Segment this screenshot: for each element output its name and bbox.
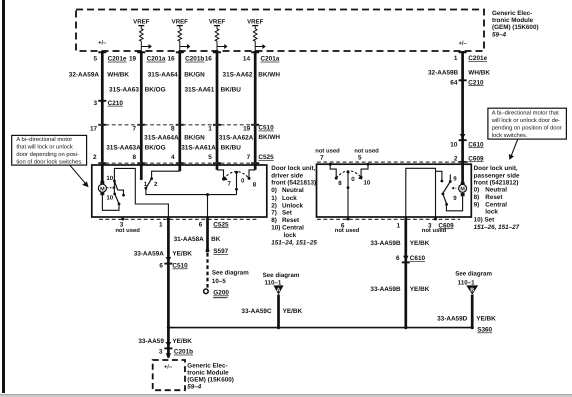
svg-text:S360: S360 — [477, 327, 492, 334]
svg-text:C525: C525 — [213, 221, 229, 228]
svg-text:14: 14 — [243, 56, 251, 63]
svg-text:C525: C525 — [258, 154, 274, 161]
svg-text:VREF: VREF — [172, 19, 189, 26]
svg-text:not used: not used — [115, 227, 140, 234]
svg-text:+/–: +/– — [458, 40, 467, 47]
svg-text:pending on position of door: pending on position of door — [492, 125, 562, 132]
svg-text:Door lock unit,: Door lock unit, — [271, 165, 315, 172]
svg-text:8: 8 — [338, 180, 342, 187]
svg-text:C210: C210 — [468, 79, 484, 86]
svg-text:7: 7 — [228, 181, 232, 188]
svg-text:31S-AA62A: 31S-AA62A — [219, 135, 254, 142]
svg-text:Lock: Lock — [282, 195, 297, 202]
svg-text:YE/BK: YE/BK — [476, 316, 496, 323]
svg-text:Set: Set — [282, 210, 293, 217]
svg-text:+/–: +/– — [164, 364, 172, 371]
svg-text:YE/BK: YE/BK — [172, 250, 192, 257]
svg-text:3: 3 — [94, 100, 98, 107]
svg-text:not used: not used — [335, 227, 360, 234]
svg-text:31S-AA61: 31S-AA61 — [184, 87, 214, 94]
svg-text:33-AA59C: 33-AA59C — [241, 308, 272, 315]
svg-text:door depending on posi-: door depending on posi- — [16, 151, 79, 158]
svg-text:0): 0) — [271, 187, 277, 194]
svg-text:BK/WH: BK/WH — [258, 72, 280, 79]
svg-text:10: 10 — [106, 194, 113, 201]
svg-text:Generic Elec-: Generic Elec- — [492, 10, 532, 17]
svg-text:8: 8 — [171, 126, 175, 133]
svg-text:passenger side: passenger side — [474, 172, 520, 179]
svg-text:33-AA59: 33-AA59 — [138, 338, 164, 345]
svg-text:BK: BK — [211, 236, 221, 243]
svg-text:10: 10 — [106, 175, 113, 182]
svg-text:G200: G200 — [213, 290, 229, 297]
svg-text:YE/BK: YE/BK — [283, 308, 303, 315]
svg-text:9: 9 — [453, 195, 457, 202]
svg-text:A: A — [277, 287, 281, 293]
svg-text:C609: C609 — [468, 155, 484, 162]
svg-text:BK/OG: BK/OG — [145, 144, 166, 151]
svg-text:BK/GN: BK/GN — [184, 135, 205, 142]
svg-text:Generic Elec-: Generic Elec- — [187, 362, 227, 369]
svg-text:1: 1 — [159, 221, 163, 228]
svg-text:31S-AA63: 31S-AA63 — [109, 87, 139, 94]
svg-text:8: 8 — [133, 154, 137, 161]
svg-text:9): 9) — [474, 201, 480, 208]
svg-text:10) Set: 10) Set — [474, 216, 496, 223]
svg-text:lock switches.: lock switches. — [492, 132, 528, 139]
svg-text:1: 1 — [454, 55, 458, 62]
svg-text:BK/GN: BK/GN — [184, 72, 205, 79]
svg-text:31S-AA64: 31S-AA64 — [148, 72, 178, 79]
svg-text:8): 8) — [474, 194, 480, 201]
svg-text:10) Central: 10) Central — [271, 225, 304, 232]
svg-text:See diagram: See diagram — [263, 272, 300, 279]
svg-text:BK/OG: BK/OG — [145, 87, 166, 94]
svg-text:Neutral: Neutral — [485, 187, 507, 194]
svg-text:31S-AA61A: 31S-AA61A — [181, 144, 216, 151]
svg-text:Reset: Reset — [485, 194, 503, 201]
svg-text:7): 7) — [271, 210, 277, 217]
svg-text:YE/BK: YE/BK — [172, 338, 192, 345]
svg-text:tion of door lock switches.: tion of door lock switches. — [16, 159, 83, 166]
svg-text:Unlock: Unlock — [282, 202, 303, 209]
svg-text:(GEM) (15K600): (GEM) (15K600) — [187, 376, 234, 383]
svg-text:5: 5 — [94, 56, 98, 63]
svg-text:S597: S597 — [213, 248, 228, 255]
svg-text:10: 10 — [364, 180, 371, 187]
svg-text:0: 0 — [351, 176, 355, 183]
svg-text:C201b: C201b — [185, 56, 204, 63]
svg-text:BK/BU: BK/BU — [221, 144, 242, 151]
svg-text:BK/WH: BK/WH — [258, 134, 280, 141]
svg-text:A bi–directional motor: A bi–directional motor — [16, 136, 72, 143]
svg-text:110–1: 110–1 — [458, 279, 475, 286]
svg-text:not used: not used — [354, 147, 379, 154]
svg-text:YE/BK: YE/BK — [410, 240, 430, 247]
svg-text:31S-AA62: 31S-AA62 — [223, 72, 253, 79]
svg-text:33-AA59B: 33-AA59B — [370, 286, 401, 293]
svg-text:1: 1 — [396, 222, 400, 229]
svg-text:will lock or unlock door de-: will lock or unlock door de- — [491, 117, 560, 124]
svg-text:10–5: 10–5 — [212, 278, 226, 285]
svg-text:31-AA58A: 31-AA58A — [174, 236, 205, 243]
svg-text:Central: Central — [485, 201, 507, 208]
svg-text:64: 64 — [450, 79, 458, 86]
svg-text:C610: C610 — [410, 255, 426, 262]
svg-text:5: 5 — [358, 155, 362, 162]
svg-text:M: M — [460, 187, 465, 193]
svg-text:33-AA59D: 33-AA59D — [437, 316, 468, 323]
svg-text:C510: C510 — [258, 125, 274, 132]
svg-text:8: 8 — [253, 182, 257, 189]
svg-text:2: 2 — [93, 154, 97, 161]
svg-text:10: 10 — [450, 141, 458, 148]
svg-text:BK/BU: BK/BU — [221, 87, 242, 94]
svg-text:151–26, 151–27: 151–26, 151–27 — [474, 224, 520, 231]
svg-text:2): 2) — [271, 202, 277, 209]
svg-text:Door lock unit,: Door lock unit, — [474, 165, 518, 172]
svg-text:VREF: VREF — [209, 19, 226, 26]
svg-text:2: 2 — [154, 181, 158, 188]
svg-text:0): 0) — [474, 187, 480, 194]
svg-text:C201e: C201e — [468, 55, 487, 62]
svg-text:B: B — [470, 287, 474, 293]
svg-text:16: 16 — [167, 56, 175, 63]
svg-text:YE/BK: YE/BK — [410, 286, 430, 293]
svg-text:7: 7 — [133, 126, 137, 133]
svg-text:A bi–directional motor that: A bi–directional motor that — [492, 110, 559, 117]
svg-text:lock: lock — [284, 232, 297, 239]
svg-text:driver side: driver side — [271, 172, 303, 179]
svg-text:151–24, 151–25: 151–24, 151–25 — [271, 239, 317, 246]
svg-text:59–4: 59–4 — [187, 383, 202, 390]
svg-text:WH/BK: WH/BK — [468, 69, 490, 76]
svg-text:lock: lock — [485, 209, 498, 216]
svg-text:Neutral: Neutral — [282, 187, 304, 194]
svg-text:2: 2 — [454, 155, 458, 162]
svg-text:VREF: VREF — [133, 19, 150, 26]
svg-text:+/–: +/– — [98, 40, 107, 47]
svg-text:M: M — [100, 186, 105, 192]
svg-text:3: 3 — [159, 349, 163, 356]
svg-text:1): 1) — [271, 195, 277, 202]
svg-text:See diagram: See diagram — [212, 270, 249, 277]
svg-text:not used: not used — [422, 227, 447, 234]
svg-text:WH/BK: WH/BK — [107, 72, 129, 79]
svg-text:6: 6 — [159, 263, 163, 270]
svg-text:7: 7 — [247, 154, 251, 161]
svg-text:6: 6 — [396, 255, 400, 262]
svg-text:7: 7 — [320, 155, 324, 162]
svg-text:C201a: C201a — [147, 56, 166, 63]
svg-text:0: 0 — [241, 177, 245, 184]
svg-text:See diagram: See diagram — [455, 270, 492, 277]
svg-text:32-AA59A: 32-AA59A — [69, 72, 100, 79]
svg-text:tronic Module: tronic Module — [187, 369, 229, 376]
svg-text:8): 8) — [271, 217, 277, 224]
svg-text:tronic Module: tronic Module — [492, 17, 534, 24]
svg-text:33-AA59A: 33-AA59A — [134, 250, 165, 257]
svg-text:C610: C610 — [468, 141, 484, 148]
svg-text:4: 4 — [171, 154, 175, 161]
svg-text:31S-AA63A: 31S-AA63A — [106, 144, 141, 151]
svg-text:110–1: 110–1 — [264, 280, 281, 287]
svg-text:C210: C210 — [108, 100, 124, 107]
svg-text:Reset: Reset — [282, 217, 300, 224]
svg-text:19: 19 — [129, 56, 137, 63]
svg-text:VREF: VREF — [247, 19, 264, 26]
svg-text:C510: C510 — [172, 263, 188, 270]
svg-text:19: 19 — [243, 126, 251, 133]
svg-text:not used: not used — [315, 147, 340, 154]
svg-text:front (5421813): front (5421813) — [271, 180, 316, 187]
svg-text:59–4: 59–4 — [492, 31, 507, 38]
svg-text:5: 5 — [208, 154, 212, 161]
svg-text:32-AA59B: 32-AA59B — [428, 69, 459, 76]
svg-text:C201e: C201e — [108, 56, 127, 63]
svg-text:1: 1 — [208, 126, 212, 133]
svg-text:31S-AA64A: 31S-AA64A — [144, 135, 179, 142]
svg-text:that will lock or unlock: that will lock or unlock — [16, 144, 72, 151]
svg-text:(GEM) (15K600): (GEM) (15K600) — [492, 24, 539, 31]
svg-text:16: 16 — [205, 56, 213, 63]
svg-text:C201b: C201b — [174, 349, 193, 356]
svg-text:17: 17 — [90, 126, 98, 133]
svg-text:6: 6 — [199, 221, 203, 228]
svg-text:33-AA59B: 33-AA59B — [370, 240, 401, 247]
svg-text:9: 9 — [453, 175, 457, 182]
svg-text:C201a: C201a — [261, 56, 280, 63]
